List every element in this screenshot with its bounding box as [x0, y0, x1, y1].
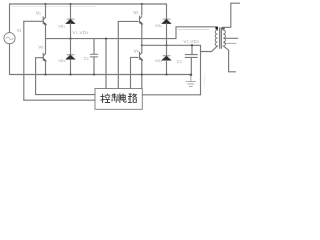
- svg-text:C2: C2: [177, 59, 182, 64]
- node dot top rail at V1 leg: [44, 3, 46, 5]
- wire V2 collector: [141, 4, 143, 15]
- wire control box right lead: [142, 94, 200, 96]
- diode VD3: [66, 55, 75, 60]
- wire VD3 cathode lead: [70, 39, 72, 55]
- diode VD1: [66, 19, 75, 24]
- wire VD2 anode to node B: [166, 24, 168, 46]
- wire node A riser to transformer primary: [176, 27, 217, 39]
- wire sense leg node A to control box: [105, 39, 107, 89]
- glyph dian: [121, 94, 126, 102]
- wire VD1 anode to node A: [70, 24, 72, 39]
- wire V2 emitter to node B: [141, 24, 143, 46]
- node dot top rail at V2 leg: [141, 3, 143, 5]
- svg-text:V2,VD3: V2,VD3: [184, 39, 200, 44]
- wire V4 drive vertical: [130, 57, 132, 88]
- node dot bottom rail at VD4: [165, 73, 167, 75]
- wire node B feedback down to control box: [200, 45, 202, 95]
- transistor V4: [140, 52, 143, 60]
- node dot node B at C2: [191, 44, 193, 46]
- wire top rail scan ghost: [11, 5, 96, 7]
- ac source E: [4, 33, 15, 44]
- wire secondary output lower: [224, 42, 236, 44]
- wire secondary bottom lead: [223, 46, 235, 72]
- wire VD4 cathode lead: [166, 45, 168, 56]
- wire VD3 anode to bottom rail: [70, 59, 72, 74]
- svg-text:V2: V2: [133, 10, 138, 16]
- wire primary bottom jog to node B feedback leg: [201, 46, 218, 52]
- capacitor C1: [90, 39, 97, 75]
- node dot node A at sense leg: [105, 38, 107, 40]
- node dot node B at V2 leg: [141, 44, 143, 46]
- svg-text:V4: V4: [134, 48, 139, 54]
- wire top rail: [10, 3, 167, 5]
- wire VD1 cathode lead: [70, 4, 72, 19]
- node dot node B at diode leg: [165, 44, 167, 46]
- wire V2 drive vertical: [117, 21, 119, 88]
- polarity dot secondary: [222, 27, 225, 30]
- wire node B rail: [142, 44, 201, 46]
- node dot bottom rail at V4: [141, 73, 143, 75]
- wire V1 collector: [45, 4, 47, 18]
- node dot bottom rail end at C2 leg: [190, 74, 193, 77]
- wire V3 emitter to bottom rail: [45, 61, 47, 75]
- wire V3 drive down to control box: [35, 58, 37, 95]
- node dot top rail at VD1 leg: [69, 3, 71, 5]
- wire ac source top lead: [9, 4, 11, 33]
- transistor V3: [43, 53, 45, 61]
- control box: [95, 89, 142, 110]
- wire VD4 anode to bottom rail: [166, 60, 168, 74]
- wire V2 base lead: [118, 20, 138, 22]
- feedback wire scan ghost: [204, 76, 206, 87]
- secondary winding: [223, 30, 225, 46]
- capacitor C2: [185, 45, 197, 74]
- svg-text:V3: V3: [38, 44, 43, 50]
- wire bottom rail: [10, 74, 192, 76]
- wire primary ghost line: [178, 28, 209, 30]
- glyph lu: [128, 94, 136, 103]
- svg-text:e1: e1: [17, 28, 22, 33]
- svg-text:V1,VD4: V1,VD4: [73, 30, 89, 35]
- wire V3 drive into box: [36, 94, 95, 96]
- wire V1 drive down to control box: [23, 21, 25, 100]
- wire V4 collector: [141, 45, 143, 52]
- wire V4 base lead: [131, 56, 139, 58]
- transistor V1: [43, 17, 46, 25]
- primary winding: [215, 30, 217, 46]
- polarity dot primary: [215, 27, 218, 30]
- wire V3 base lead: [36, 57, 44, 59]
- diode VD2: [162, 19, 171, 24]
- node dot node A at diode leg: [69, 38, 71, 40]
- wire V1 drive into box: [24, 99, 95, 101]
- glyph zhi: [112, 94, 120, 103]
- wire V1 base lead: [24, 20, 43, 22]
- wire V1 emitter to node A: [45, 24, 47, 38]
- transistor V2: [140, 16, 143, 24]
- svg-text:VD2: VD2: [155, 24, 162, 28]
- ground symbol: [186, 75, 195, 87]
- svg-text:V1: V1: [36, 11, 41, 17]
- node dot bottom rail at VD3: [69, 73, 71, 75]
- svg-text:C1: C1: [84, 56, 89, 61]
- wire secondary output upper: [224, 37, 238, 39]
- wire V4 emitter to bottom rail and box corner: [141, 60, 143, 89]
- transformer T1: [215, 27, 225, 49]
- wire node A rail: [46, 38, 177, 40]
- node dot V3 emitter bottom rail: [44, 73, 46, 75]
- wire ac source bottom lead: [9, 44, 11, 75]
- svg-text:VD1: VD1: [58, 24, 65, 28]
- label control circuit text (hand drawn CJK): [101, 94, 137, 103]
- node dot bottom rail at C1: [93, 73, 95, 75]
- transformer core: [220, 28, 222, 49]
- svg-text:VD3: VD3: [58, 59, 65, 63]
- wire V3 collector: [45, 39, 47, 54]
- svg-text:VD4: VD4: [155, 59, 162, 63]
- wire VD2 cathode lead from top rail corner: [166, 4, 168, 19]
- diode VD4: [162, 56, 171, 61]
- glyph kong: [101, 94, 110, 103]
- wire secondary top loop: [223, 3, 240, 30]
